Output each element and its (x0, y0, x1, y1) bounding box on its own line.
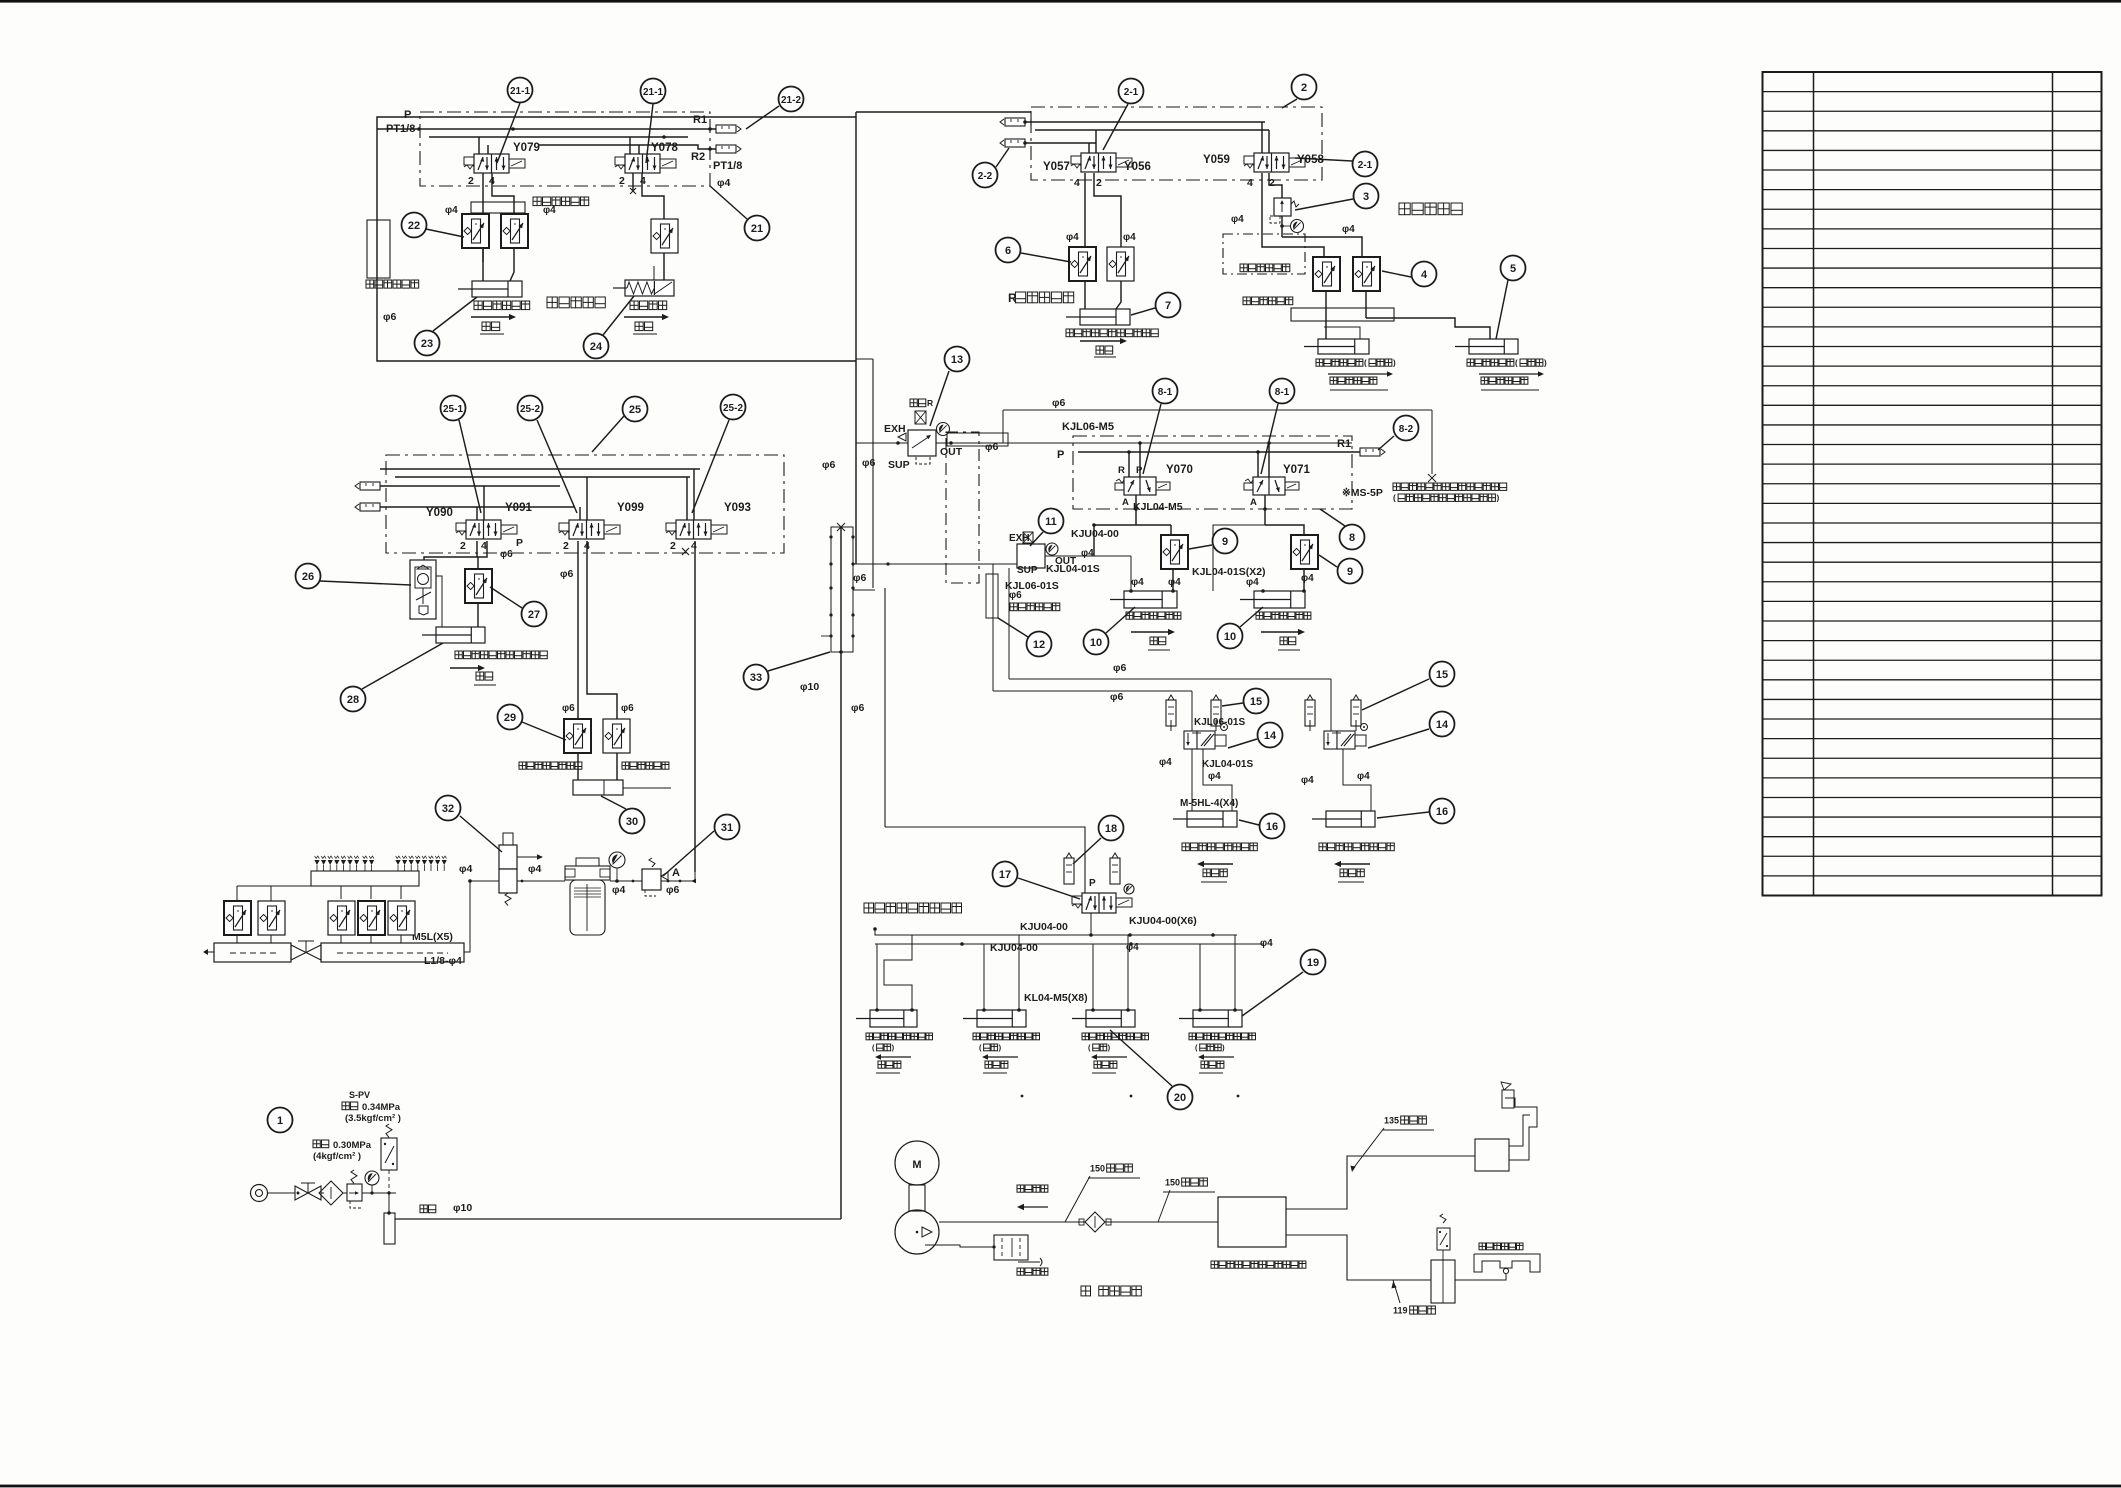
svg-text:4: 4 (691, 540, 697, 552)
svg-text:16: 16 (1266, 821, 1278, 833)
svg-text:φ6: φ6 (621, 703, 634, 714)
svg-text:17: 17 (999, 869, 1011, 881)
pilot check 18a (1064, 853, 1074, 884)
label phi6 left (383, 311, 397, 323)
bus line to screen section (885, 588, 1085, 893)
label スキージ後クランプ (1319, 843, 1394, 882)
label 135ダクト (1350, 1115, 1434, 1172)
callout 7 (1131, 293, 1181, 318)
svg-text:φ10: φ10 (453, 1202, 472, 1214)
label S-PV settings (342, 1090, 401, 1124)
arrow 上昇 left (471, 314, 516, 334)
wire bus to box 2 (856, 112, 1031, 126)
phi6 feed lines to clamps (993, 679, 1331, 811)
label スクリーン上押さえ 4 (1189, 1033, 1256, 1073)
screen cylinder 4 (1179, 1008, 1242, 1027)
svg-text:2: 2 (460, 540, 466, 552)
supply source circle (251, 1185, 296, 1202)
screen bus lines (873, 913, 1264, 946)
svg-text:φ6: φ6 (500, 549, 513, 560)
svg-text:φ6: φ6 (1052, 397, 1066, 409)
speed controller 9b (1291, 535, 1318, 569)
callout 21-1 b (641, 79, 666, 164)
wires Y090 to nozzle unit (424, 541, 487, 569)
speed controller 27 (465, 569, 492, 603)
solenoid valve Y090 Y091 (426, 502, 532, 539)
cable bear dashed tall (946, 432, 979, 583)
svg-text:3: 3 (1363, 191, 1369, 203)
svg-text:EXH: EXH (884, 423, 906, 435)
port labels Y059 (1247, 177, 1275, 189)
svg-text:R: R (927, 398, 933, 408)
svg-text:φ4: φ4 (612, 884, 626, 896)
speed controller 6a (1066, 232, 1096, 281)
top border bar (0, 0, 2121, 3)
svg-text:φ6: φ6 (560, 568, 574, 580)
callout 2-1 b (1295, 152, 1378, 177)
suction fixture comb (1455, 1254, 1540, 1280)
small tick marks below screen (1021, 1095, 1240, 1098)
callout 15b (1362, 662, 1455, 711)
label チャック吸引 (622, 762, 669, 769)
svg-text:φ4: φ4 (1231, 214, 1244, 225)
svg-text:KL04-M5(X8): KL04-M5(X8) (1024, 992, 1088, 1004)
port labels Y057 (1074, 177, 1102, 189)
labels 11 area (1005, 528, 1119, 601)
svg-text:21: 21 (751, 223, 763, 235)
callout 11 (1030, 509, 1064, 547)
main vertical bus phi10 (841, 112, 856, 1219)
speed controller 4a (1313, 257, 1340, 291)
wire sc27 to cylinder 28 (477, 603, 479, 627)
hand valve 14a KJL04-01S (1184, 724, 1228, 750)
wires Y057 to cylinder 7 (1085, 173, 1121, 309)
small valve 11 KJL06-01S (1009, 532, 1076, 576)
svg-text:Y093: Y093 (724, 502, 751, 514)
svg-text:33: 33 (750, 672, 762, 684)
svg-text:φ4: φ4 (528, 863, 542, 875)
cable bearer box top-left (445, 197, 589, 216)
svg-text:2: 2 (468, 175, 474, 187)
cylinder 基板チャック front (1304, 339, 1369, 354)
wires 14b to cylinder 16b (1310, 720, 1371, 811)
svg-text:16: 16 (1436, 806, 1448, 818)
label phi6 near 13 (985, 397, 1066, 453)
svg-text:OUT: OUT (940, 446, 963, 458)
label setting 0.30MPa (313, 1140, 372, 1162)
svg-text:2: 2 (1269, 177, 1275, 189)
svg-text:4: 4 (1247, 177, 1253, 189)
port labels Y078 (619, 175, 646, 187)
port labels Y099 (563, 540, 590, 552)
label KJL04-01S X2 (1192, 566, 1266, 578)
svg-text:φ4: φ4 (1260, 938, 1273, 949)
svg-text:φ4: φ4 (1131, 577, 1144, 588)
svg-text:2-2: 2-2 (978, 171, 993, 182)
svg-text:φ4: φ4 (717, 177, 731, 189)
label 基板チャック front (1316, 359, 1396, 390)
port labels Y090 (460, 537, 523, 552)
label プロフロー注記 (1393, 483, 1507, 503)
svg-text:KJU04-00: KJU04-00 (1020, 921, 1068, 933)
label KJU04-00 second (990, 942, 1038, 954)
hand valve 14b (1324, 724, 1368, 750)
wires Y099 down to suction (578, 541, 617, 780)
callout 29 (498, 705, 567, 741)
labels phi6 feed (1110, 662, 1127, 703)
pilot check 15a-1 (1166, 695, 1176, 726)
svg-text:10: 10 (1090, 637, 1102, 649)
svg-text:4: 4 (1074, 177, 1080, 189)
arrow 上昇 conveyor (1080, 338, 1127, 357)
label 150ダクト b (1158, 1177, 1215, 1222)
wires Y078 to cylinder 24 (630, 173, 664, 280)
cable bearer 12 box (986, 574, 998, 618)
svg-text:0.30MPa: 0.30MPa (333, 1140, 372, 1151)
label スクリーンホルダ部 (864, 903, 962, 913)
svg-text:5: 5 (1510, 263, 1516, 275)
svg-text:R1: R1 (693, 114, 707, 126)
cylinder コンベア上基板ストッパ (1066, 309, 1130, 325)
callout 32 (436, 796, 503, 853)
callout 18 (1073, 816, 1124, 865)
pilot lines box 8 (1078, 441, 1360, 477)
inlet gauge (365, 1171, 379, 1195)
svg-text:0.34MPa: 0.34MPa (362, 1102, 401, 1113)
pressure switch (381, 1124, 397, 1192)
callout 5 (1496, 256, 1526, 340)
port labels Y093 (670, 540, 697, 552)
svg-text:13: 13 (951, 354, 963, 366)
label 基板検査治具 (1479, 1243, 1523, 1250)
callout 17 (993, 862, 1081, 900)
callout 26 (296, 564, 412, 589)
svg-text:P: P (1089, 878, 1096, 889)
svg-text:φ6: φ6 (562, 703, 575, 714)
blower unit box (1218, 1197, 1286, 1247)
svg-text:(: ( (1515, 359, 1518, 368)
svg-text:18: 18 (1105, 823, 1117, 835)
inlet wires to main (362, 1191, 841, 1244)
svg-text:φ4: φ4 (1168, 577, 1181, 588)
label コンベア上基板ストッパ (1066, 329, 1158, 337)
svg-text:15: 15 (1436, 669, 1448, 681)
svg-text:KJL06-01S: KJL06-01S (1194, 717, 1245, 728)
callout 6 (996, 238, 1072, 263)
label KJL04-M5 (1133, 501, 1183, 513)
speed controller 9a (1161, 535, 1188, 569)
svg-text:22: 22 (408, 220, 420, 232)
pilot check 15b-2 (1351, 695, 1361, 726)
svg-text:R1: R1 (1337, 438, 1351, 450)
svg-text:P: P (1136, 465, 1143, 476)
svg-text:P: P (1057, 449, 1064, 461)
fittings left of box 2 (1000, 118, 1027, 147)
svg-text:8-1: 8-1 (1275, 387, 1290, 398)
cylinder 基板ストッパ (458, 281, 522, 297)
wire A to Y093 line (661, 872, 696, 883)
label Rコンベア部 (1008, 291, 1074, 305)
callout 27 (490, 587, 547, 627)
svg-text:φ4: φ4 (543, 205, 556, 216)
label 基板押え (630, 301, 667, 310)
svg-text:M5L(X5): M5L(X5) (412, 931, 453, 943)
svg-text:10: 10 (1224, 631, 1236, 643)
svg-text:8: 8 (1349, 532, 1355, 544)
svg-text:KJL06-M5: KJL06-M5 (1062, 421, 1114, 433)
fitting R1 (693, 114, 741, 133)
svg-text:150: 150 (1090, 1163, 1105, 1173)
svg-text:KJL04-01S: KJL04-01S (1202, 759, 1253, 770)
svg-text:2: 2 (670, 540, 676, 552)
svg-text:2: 2 (619, 175, 625, 187)
regulator 31 (642, 858, 668, 896)
svg-text:φ6: φ6 (1009, 590, 1022, 601)
callout 8 (1320, 509, 1365, 550)
labels phi4 9 (1131, 573, 1314, 588)
solenoid valve Y099 (559, 502, 644, 539)
callout 25-2 b (692, 395, 746, 514)
callout 21-1 a (497, 78, 533, 164)
valve group dashed box 8 (1073, 436, 1352, 509)
blocked port X Y093 (682, 548, 689, 555)
callout 8-2 (1378, 416, 1419, 451)
labels phi6 phi10 bus (800, 457, 876, 714)
3-port valve Y071 (1244, 464, 1310, 508)
wires Y070 Y071 down (1092, 495, 1304, 591)
svg-text:4: 4 (481, 540, 487, 552)
duct box top right (1475, 1082, 1537, 1171)
svg-text:(3.5kgf/cm² ): (3.5kgf/cm² ) (345, 1113, 401, 1124)
svg-text:25: 25 (629, 404, 641, 416)
svg-text:29: 29 (504, 712, 516, 724)
cable bearer bar chuck (1243, 297, 1394, 321)
callout 4 (1382, 262, 1437, 287)
svg-text:25-2: 25-2 (520, 404, 540, 415)
node P PT1/8 (386, 109, 421, 135)
solenoid valve Y079 (464, 142, 540, 173)
screen cylinder wires (877, 935, 1235, 1010)
speed controller 29a (564, 719, 591, 753)
bus segment right of box (856, 359, 873, 588)
svg-text:Y079: Y079 (513, 142, 540, 154)
vacuum pump (895, 1185, 939, 1254)
speed controller 29b (603, 719, 630, 753)
label 基板認識部 (547, 297, 605, 308)
valve group dashed box 2 (1031, 107, 1322, 180)
label phi6 mid (560, 568, 574, 580)
callout 30 (601, 796, 645, 834)
wires 14a to cylinder 16a (1171, 720, 1232, 811)
svg-text:(4kgf/cm² ): (4kgf/cm² ) (313, 1151, 361, 1162)
callout 10b (1218, 607, 1264, 649)
wires Y059 to chuck (1262, 173, 1362, 257)
svg-text:KJU04-00: KJU04-00 (990, 942, 1038, 954)
callout 2-2 (973, 148, 1010, 188)
svg-text:Y099: Y099 (617, 502, 644, 514)
label phi6 Y091 (500, 549, 513, 560)
callout 10a (1084, 607, 1136, 655)
callout 2-1 a (1103, 79, 1144, 151)
solenoid valve Y078 (615, 142, 678, 173)
svg-text:φ10: φ10 (800, 681, 819, 693)
air nozzle manifold rails (203, 943, 464, 962)
spring cylinder 基板押え (613, 266, 674, 296)
duct valve bottom right (1431, 1214, 1455, 1303)
hand valve between rails (291, 941, 321, 960)
wire Y093 to A (694, 541, 696, 872)
label 排気方向 (1017, 1268, 1048, 1275)
svg-text:φ4: φ4 (1301, 775, 1314, 786)
callout 16b (1377, 799, 1455, 824)
svg-text:2: 2 (563, 540, 569, 552)
svg-text:φ4: φ4 (1159, 757, 1172, 768)
label スクリーン上押さえ 2 (973, 1033, 1040, 1073)
pilot lines box 25 (380, 469, 700, 520)
svg-text:KJU04-00: KJU04-00 (1071, 528, 1119, 540)
vacuum unit 26 (410, 560, 436, 619)
svg-text:2: 2 (1096, 177, 1102, 189)
svg-text:φ4: φ4 (1342, 224, 1355, 235)
solenoid valve Y057 Y056 (1043, 153, 1151, 173)
svg-text:KJL04-M5: KJL04-M5 (1133, 501, 1183, 513)
svg-text:30: 30 (626, 816, 638, 828)
callout 20 (1110, 1030, 1193, 1110)
svg-text:Y057: Y057 (1043, 161, 1070, 173)
solenoid valve Y059 Y058 (1203, 153, 1324, 172)
labels 本体 phi10 (420, 1202, 472, 1214)
cylinder クリーニングノズル上下 (422, 627, 485, 643)
gauge after filter (609, 852, 625, 881)
svg-text:21-1: 21-1 (510, 86, 530, 97)
svg-text:Y091: Y091 (505, 502, 532, 514)
callout 2 (1282, 75, 1317, 109)
svg-text:1: 1 (277, 1115, 283, 1127)
svg-text:8-2: 8-2 (1399, 424, 1414, 435)
label 基板ストッパ (474, 301, 530, 310)
svg-text:φ4: φ4 (1357, 771, 1370, 782)
speed controller 6b (1107, 232, 1136, 281)
vacuum motor M (895, 1141, 939, 1185)
svg-text:Y070: Y070 (1166, 464, 1193, 476)
wires Y079 to cylinder 23 (483, 173, 514, 281)
svg-text:φ6: φ6 (985, 441, 999, 453)
callout 15a (1222, 689, 1269, 714)
svg-text:): ) (1393, 359, 1396, 368)
svg-text:4: 4 (640, 175, 646, 187)
pilot check 18b (1110, 853, 1120, 884)
svg-text:32: 32 (442, 803, 454, 815)
svg-text:11: 11 (1045, 516, 1057, 528)
label スクリーン上押さえ 3 (1082, 1033, 1149, 1073)
svg-text:φ4: φ4 (1066, 232, 1079, 243)
svg-text:23: 23 (421, 338, 433, 350)
svg-text:M-5HL-4(X4): M-5HL-4(X4) (1180, 798, 1238, 809)
label KL04-M5 X8 (1024, 992, 1088, 1004)
svg-text:20: 20 (1174, 1092, 1186, 1104)
cable bearer box left edge (366, 220, 419, 288)
svg-text:19: 19 (1307, 957, 1319, 969)
label チャック部 (1399, 203, 1462, 215)
callout 22 (402, 213, 465, 238)
svg-text:21-1: 21-1 (643, 87, 663, 98)
arrow 上昇 right (624, 314, 669, 334)
callout 33 (744, 652, 831, 690)
node P box 8 (1057, 449, 1064, 461)
svg-text:2: 2 (1301, 82, 1307, 94)
callout 21 (710, 186, 770, 241)
labels 14a (1159, 717, 1253, 782)
svg-text:φ6: φ6 (1110, 691, 1124, 703)
callout 8-1 a (1143, 379, 1178, 475)
callout 3 (1295, 184, 1379, 211)
speed controller 22b (501, 214, 528, 248)
label クリーニングノズル上下 (450, 651, 547, 685)
svg-text:2-1: 2-1 (1124, 87, 1139, 98)
svg-text:119: 119 (1393, 1305, 1408, 1315)
svg-text:φ4: φ4 (1301, 573, 1314, 584)
label A phi6 (666, 867, 680, 896)
wires 11 to bus (888, 556, 1131, 691)
pilot check 15b-1 (1305, 695, 1315, 726)
wires to chuck cylinders (1324, 291, 1490, 339)
svg-text:φ4: φ4 (459, 863, 473, 875)
svg-text:S-PV: S-PV (349, 1090, 370, 1100)
svg-text:6: 6 (1005, 245, 1011, 257)
parts list table (1763, 72, 2102, 896)
bus junction block (821, 523, 890, 654)
cylinder スキージ前上下 (1110, 589, 1177, 608)
valve 17 (1072, 878, 1134, 913)
label ケーブルベア 11 (1010, 603, 1060, 611)
callout 9a (1189, 529, 1238, 554)
callout 23 (415, 297, 478, 356)
speed controller 22a (462, 214, 489, 248)
labels phi4 32 (459, 863, 542, 875)
svg-text:(: ( (1393, 494, 1396, 503)
label M-5HL-4 X4 (1180, 798, 1238, 809)
wires manifold scs (237, 935, 401, 943)
fitting R1 box8 (1337, 438, 1385, 456)
label スキージ前クランプ (1182, 843, 1257, 882)
speed controller 24line (651, 219, 678, 253)
callout 14a (1228, 723, 1283, 749)
wire OUT 13 (856, 441, 1352, 445)
svg-text:): ) (1496, 494, 1499, 503)
svg-text:14: 14 (1264, 730, 1277, 742)
callout 19 (1242, 950, 1326, 1017)
fitting R2 (691, 145, 742, 172)
svg-text:25-1: 25-1 (443, 404, 463, 415)
svg-text:Y071: Y071 (1283, 464, 1310, 476)
pilot lines top-left valves (377, 127, 716, 154)
svg-text:R: R (1118, 465, 1125, 476)
label スキージ前上下 a (1126, 612, 1181, 650)
port labels Y079 (468, 175, 495, 187)
svg-text:φ6: φ6 (862, 457, 876, 469)
callout 12 (998, 618, 1052, 657)
svg-text:27: 27 (528, 609, 540, 621)
svg-text:P: P (404, 109, 411, 121)
label スキージ後上下 b (1256, 612, 1311, 650)
callout 25-2 a (518, 396, 578, 514)
svg-text:28: 28 (347, 694, 359, 706)
labels KJU04-00 17 (1020, 915, 1197, 933)
valve 32 residual pressure (499, 833, 543, 906)
speed controller 4b (1353, 257, 1380, 291)
inlet filter diamond (319, 1181, 343, 1205)
wire to X mark (1003, 410, 1436, 482)
